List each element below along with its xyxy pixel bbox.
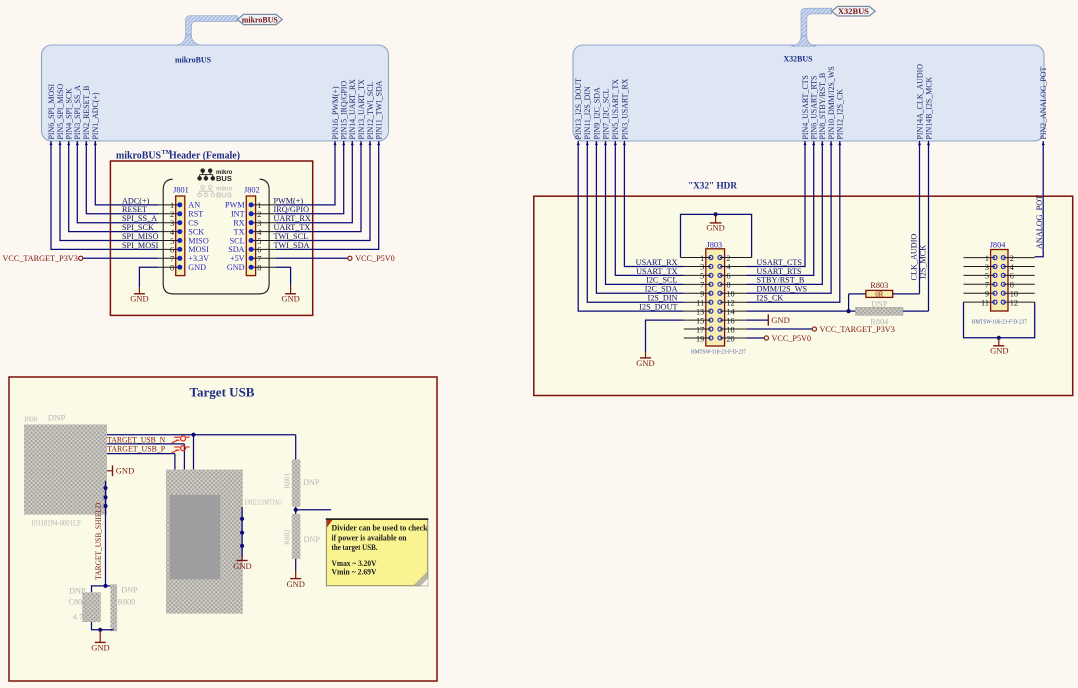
svg-text:7: 7: [170, 255, 174, 264]
svg-text:PWM: PWM: [225, 201, 245, 210]
svg-text:1: 1: [985, 254, 989, 263]
svg-text:GND: GND: [706, 223, 724, 233]
svg-text:7: 7: [257, 255, 261, 264]
svg-text:3: 3: [700, 263, 704, 272]
svg-text:BUS: BUS: [216, 191, 232, 200]
svg-text:5: 5: [985, 272, 989, 281]
svg-text:6: 6: [170, 246, 174, 255]
svg-text:PIN11_TWI_SDA: PIN11_TWI_SDA: [375, 80, 384, 139]
svg-text:16: 16: [726, 316, 734, 325]
svg-text:2: 2: [170, 210, 174, 219]
svg-text:+5V: +5V: [230, 254, 245, 263]
svg-text:EMI2121MTTAG: EMI2121MTTAG: [245, 498, 282, 506]
svg-text:PIN2_ANALOG_POT: PIN2_ANALOG_POT: [1039, 67, 1048, 140]
svg-text:MOSI: MOSI: [188, 245, 209, 254]
svg-text:DNP: DNP: [303, 478, 320, 487]
svg-text:R801: R801: [283, 472, 292, 488]
svg-text:PIN10_DMM/I2S_WS: PIN10_DMM/I2S_WS: [827, 66, 836, 139]
svg-text:CS: CS: [188, 219, 198, 228]
svg-text:6: 6: [257, 246, 261, 255]
svg-text:PIN2_RESET_B: PIN2_RESET_B: [82, 86, 91, 140]
svg-text:USART_TX: USART_TX: [636, 267, 677, 276]
svg-text:Target USB: Target USB: [190, 385, 255, 400]
svg-text:3: 3: [257, 219, 261, 228]
svg-text:SCL: SCL: [230, 236, 245, 245]
svg-text:3: 3: [170, 219, 174, 228]
svg-text:15: 15: [696, 316, 704, 325]
svg-text:X32BUS: X32BUS: [784, 54, 813, 64]
svg-text:+3.3V: +3.3V: [188, 254, 209, 263]
svg-text:PIN13_I2S_DOUT: PIN13_I2S_DOUT: [574, 78, 583, 140]
svg-text:Divider can be used to check: Divider can be used to check: [332, 522, 428, 532]
svg-text:12: 12: [1010, 298, 1018, 307]
svg-text:8: 8: [726, 281, 730, 290]
svg-text:TARGET_USB_N: TARGET_USB_N: [107, 436, 165, 445]
svg-text:2: 2: [1010, 254, 1014, 263]
svg-text:GND: GND: [990, 345, 1008, 355]
svg-text:PIN1_ADC(+): PIN1_ADC(+): [91, 92, 100, 139]
svg-text:INT: INT: [231, 210, 245, 219]
svg-text:PIN9_I2C_SDA: PIN9_I2C_SDA: [592, 87, 601, 139]
svg-text:10: 10: [726, 290, 734, 299]
svg-text:GND: GND: [636, 358, 654, 368]
svg-text:I2S_MCK: I2S_MCK: [919, 245, 928, 279]
svg-text:TARGET_USB_SHIELD: TARGET_USB_SHIELD: [94, 503, 103, 580]
svg-text:GND: GND: [233, 561, 251, 571]
svg-text:DNP: DNP: [48, 413, 66, 423]
svg-text:1: 1: [700, 254, 704, 263]
svg-text:GND: GND: [130, 294, 148, 304]
svg-text:9: 9: [985, 290, 989, 299]
svg-text:J802: J802: [244, 185, 260, 194]
svg-text:1: 1: [257, 201, 261, 210]
svg-text:5: 5: [700, 272, 704, 281]
svg-text:2: 2: [257, 210, 261, 219]
svg-text:PWM(+): PWM(+): [274, 196, 304, 205]
svg-text:I2S_CK: I2S_CK: [757, 294, 784, 303]
svg-text:TWI_SDA: TWI_SDA: [274, 241, 310, 250]
svg-text:SPI_SS_A: SPI_SS_A: [122, 214, 157, 223]
svg-text:GND: GND: [281, 294, 299, 304]
svg-text:CLK_AUDIO: CLK_AUDIO: [910, 234, 919, 281]
svg-text:VCC_P5V0: VCC_P5V0: [355, 254, 395, 263]
svg-text:PIN14A_CLK_AUDIO: PIN14A_CLK_AUDIO: [915, 64, 924, 140]
svg-text:AN: AN: [188, 201, 200, 210]
svg-text:Header (Female): Header (Female): [169, 150, 240, 162]
svg-text:VCC_TARGET_P3V3: VCC_TARGET_P3V3: [2, 254, 77, 263]
svg-text:PIN12_I2S_CK: PIN12_I2S_CK: [836, 89, 845, 140]
svg-text:RESET: RESET: [122, 205, 147, 214]
svg-text:DNP: DNP: [304, 535, 321, 544]
svg-text:GND: GND: [771, 315, 789, 325]
svg-text:J804: J804: [990, 241, 1007, 250]
svg-text:PIN3_SPI_SS_A: PIN3_SPI_SS_A: [73, 85, 82, 140]
svg-text:TWI_SCL: TWI_SCL: [274, 232, 309, 241]
svg-text:8: 8: [1010, 281, 1014, 290]
svg-text:20: 20: [726, 334, 734, 343]
svg-text:10118194-0001LF: 10118194-0001LF: [31, 519, 81, 528]
svg-text:Vmin ~ 2.69V: Vmin ~ 2.69V: [332, 566, 378, 576]
svg-text:ADC(+): ADC(+): [122, 196, 150, 205]
svg-text:10: 10: [1010, 290, 1018, 299]
svg-text:7: 7: [700, 281, 704, 290]
svg-text:12: 12: [726, 299, 734, 308]
svg-text:J801: J801: [173, 185, 189, 194]
svg-text:IRQ/GPIO: IRQ/GPIO: [274, 205, 310, 214]
svg-text:VCC_TARGET_P3V3: VCC_TARGET_P3V3: [820, 325, 895, 334]
svg-text:I2S_DIN: I2S_DIN: [647, 294, 677, 303]
svg-text:SPI_MOSI: SPI_MOSI: [122, 241, 159, 250]
svg-text:14: 14: [726, 307, 735, 316]
svg-text:2: 2: [726, 254, 730, 263]
svg-text:19: 19: [696, 334, 704, 343]
svg-text:X32BUS: X32BUS: [838, 6, 869, 16]
svg-text:USART_CTS: USART_CTS: [757, 258, 803, 267]
svg-text:DNP: DNP: [121, 585, 138, 594]
svg-text:PIN16_PWM(+): PIN16_PWM(+): [331, 86, 340, 139]
svg-text:MISO: MISO: [188, 236, 209, 245]
svg-text:the target USB.: the target USB.: [332, 542, 378, 552]
svg-text:GND: GND: [188, 263, 206, 272]
svg-text:5: 5: [170, 237, 174, 246]
svg-text:"X32" HDR: "X32" HDR: [688, 181, 738, 192]
svg-text:R802: R802: [283, 529, 292, 545]
svg-text:PIN3_USART_RX: PIN3_USART_RX: [620, 78, 629, 139]
svg-text:PIN11_I2S_DIN: PIN11_I2S_DIN: [583, 86, 592, 139]
svg-text:DNP: DNP: [871, 299, 888, 308]
svg-text:6: 6: [726, 272, 730, 281]
svg-text:SPI_MISO: SPI_MISO: [122, 232, 158, 241]
svg-text:13: 13: [696, 307, 704, 316]
svg-text:7: 7: [985, 281, 989, 290]
svg-text:mikroBUS: mikroBUS: [242, 15, 278, 25]
svg-text:4.7K: 4.7K: [73, 613, 89, 622]
svg-text:BUS: BUS: [216, 174, 232, 183]
svg-text:SCK: SCK: [188, 227, 204, 236]
svg-text:ANALOG_POT: ANALOG_POT: [1035, 195, 1044, 249]
svg-text:TX: TX: [234, 227, 245, 236]
svg-text:UART_RX: UART_RX: [274, 214, 311, 223]
svg-text:SPI_SCK: SPI_SCK: [122, 223, 154, 232]
svg-text:PIN4_USART_CTS: PIN4_USART_CTS: [801, 75, 810, 139]
svg-text:PIN14B_I2S_MCK: PIN14B_I2S_MCK: [924, 77, 933, 140]
svg-text:USART_RTS: USART_RTS: [757, 267, 802, 276]
svg-text:PIN8_STBY/RST_B: PIN8_STBY/RST_B: [818, 73, 827, 140]
svg-text:DMM/I2S_WS: DMM/I2S_WS: [757, 285, 808, 294]
svg-text:8: 8: [170, 264, 174, 273]
svg-text:PIN12_TWI_SCL: PIN12_TWI_SCL: [366, 81, 375, 139]
svg-text:R803: R803: [870, 281, 888, 290]
svg-text:RST: RST: [188, 210, 203, 219]
svg-text:3: 3: [985, 263, 989, 272]
svg-text:0R: 0R: [875, 291, 883, 298]
svg-text:PIN5_USART_TX: PIN5_USART_TX: [611, 79, 620, 140]
svg-text:PIN5_SPI_MISO: PIN5_SPI_MISO: [56, 84, 65, 140]
svg-text:UART_TX: UART_TX: [274, 223, 311, 232]
svg-text:1: 1: [170, 201, 174, 210]
svg-text:GND: GND: [116, 466, 134, 476]
svg-text:HMTSW-106-23-F-D-237: HMTSW-106-23-F-D-237: [972, 319, 1028, 326]
svg-text:DNP: DNP: [69, 586, 86, 595]
svg-text:if power is available on: if power is available on: [332, 532, 407, 542]
svg-text:18: 18: [726, 325, 734, 334]
svg-text:11: 11: [696, 299, 704, 308]
svg-text:11: 11: [981, 298, 989, 307]
svg-text:I2S_DOUT: I2S_DOUT: [639, 303, 677, 312]
svg-text:PIN6_SPI_MOSI: PIN6_SPI_MOSI: [47, 83, 56, 139]
svg-text:mikroBUS: mikroBUS: [116, 150, 161, 162]
svg-text:HMTSW-110-23-F-D-237: HMTSW-110-23-F-D-237: [691, 348, 747, 355]
svg-text:GND: GND: [227, 263, 245, 272]
svg-text:STBY/RST_B: STBY/RST_B: [757, 276, 805, 285]
svg-text:PIN7_I2C_SCL: PIN7_I2C_SCL: [601, 88, 610, 139]
svg-text:PIN13_UART_TX: PIN13_UART_TX: [357, 79, 366, 139]
svg-text:R800: R800: [118, 598, 136, 607]
svg-text:USART_RX: USART_RX: [636, 258, 678, 267]
svg-text:GND: GND: [286, 579, 304, 589]
svg-text:PIN14_UART_RX: PIN14_UART_RX: [348, 79, 357, 140]
svg-text:RX: RX: [233, 219, 244, 228]
svg-text:I2C_SDA: I2C_SDA: [645, 285, 678, 294]
svg-text:17: 17: [696, 325, 704, 334]
svg-text:SDA: SDA: [228, 245, 244, 254]
svg-text:C800: C800: [68, 598, 86, 607]
svg-text:I2C_SCL: I2C_SCL: [646, 276, 677, 285]
svg-text:TARGET_USB_P: TARGET_USB_P: [107, 445, 165, 454]
svg-text:6: 6: [1010, 272, 1014, 281]
svg-text:5: 5: [257, 237, 261, 246]
svg-text:J803: J803: [707, 240, 723, 249]
svg-text:GND: GND: [91, 642, 109, 652]
svg-text:mikroBUS: mikroBUS: [175, 55, 211, 65]
svg-text:VCC_P5V0: VCC_P5V0: [772, 334, 812, 343]
svg-text:9: 9: [700, 290, 704, 299]
svg-text:J800: J800: [24, 414, 38, 423]
svg-text:8: 8: [257, 264, 261, 273]
